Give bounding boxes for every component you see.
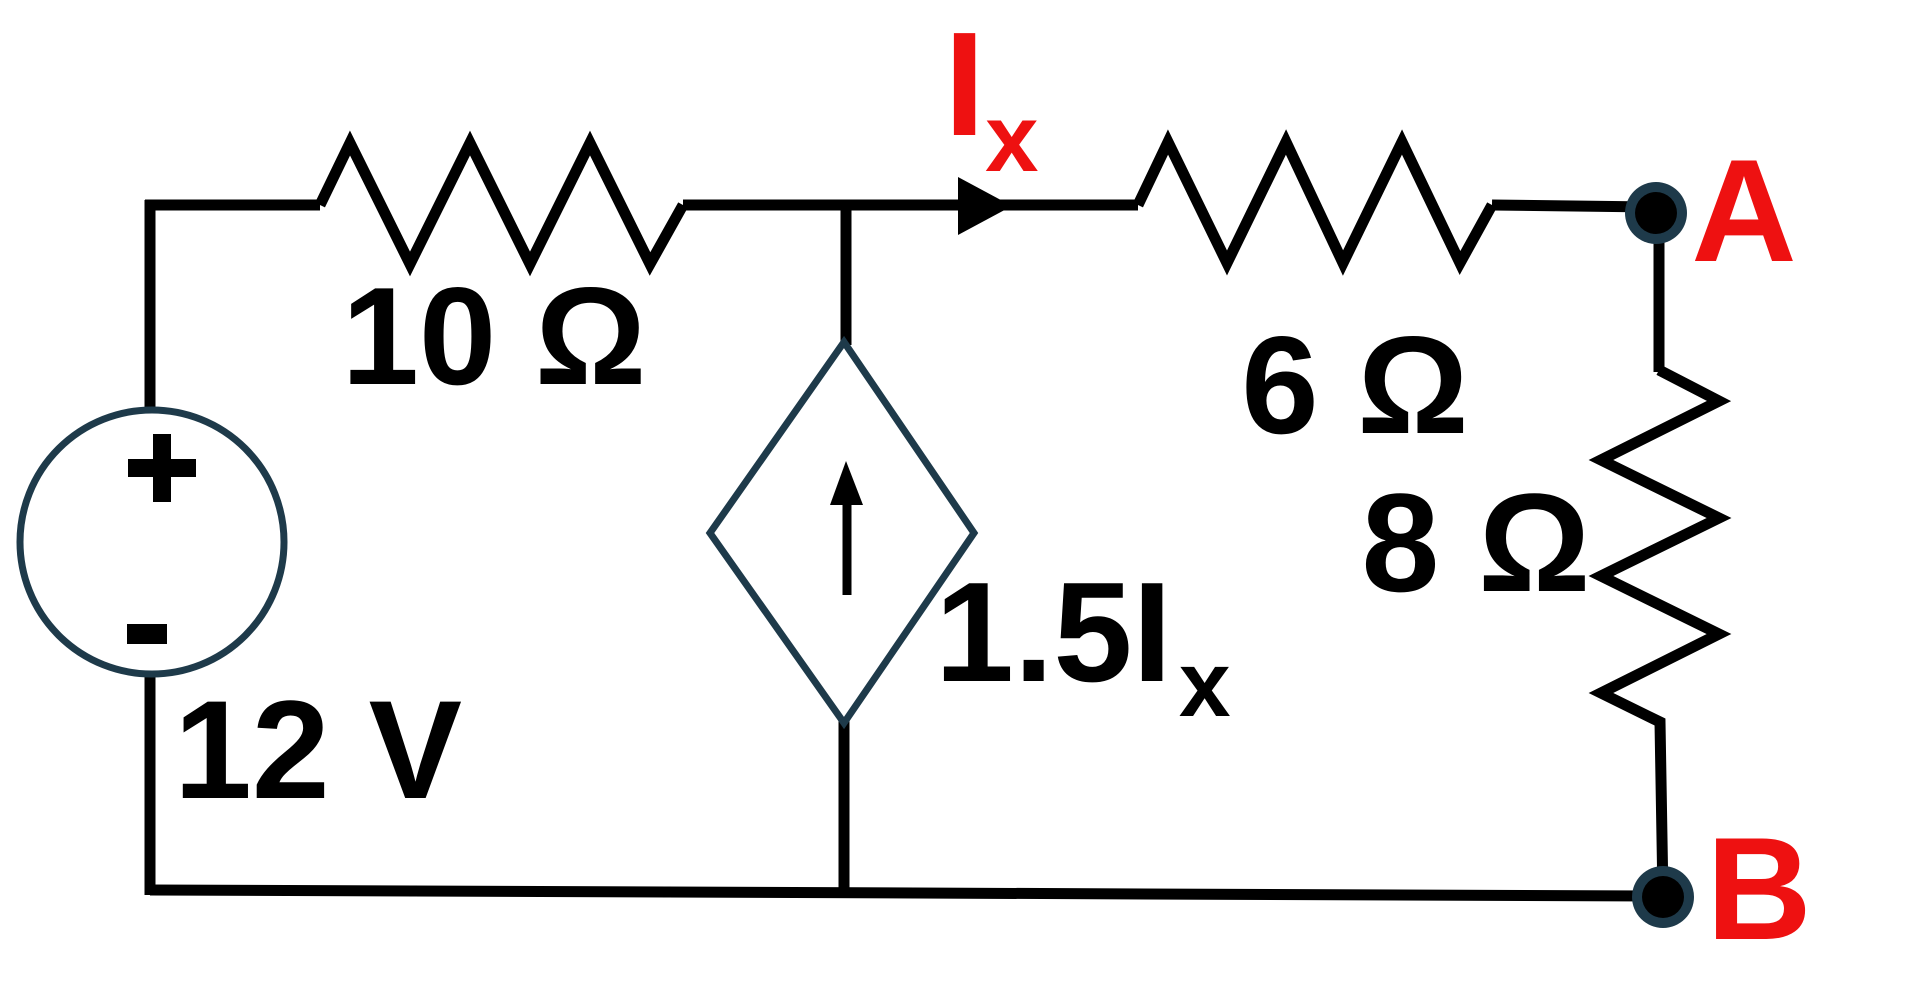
svg-text:12 V: 12 V: [174, 671, 462, 828]
svg-text:10 Ω: 10 Ω: [342, 259, 647, 414]
wire: top middle segment from R1 to arrow: [683, 200, 1138, 211]
resistor R1 10 ohm zigzag: [320, 143, 683, 264]
resistor R2 6 ohm zigzag: [1138, 142, 1492, 263]
svg-text:A: A: [1691, 129, 1796, 292]
V1 minus sign: [127, 624, 167, 644]
wire: middle vertical from dependent source to bottom wire: [839, 720, 850, 896]
wire: top-left horizontal segment: [145, 200, 320, 211]
wire: from R2 to node A: [1492, 205, 1656, 207]
resistor R3 8 ohm vertical zigzag: [1601, 370, 1719, 897]
svg-text:8 Ω: 8 Ω: [1361, 464, 1590, 621]
node A terminal dot: [1625, 182, 1687, 244]
svg-text:B: B: [1706, 807, 1811, 970]
current arrow Ix head: [958, 177, 1012, 235]
wire: bottom horizontal: [150, 890, 1663, 896]
wire: left vertical from source bottom to bottom-left corner: [145, 676, 156, 895]
wire: left vertical from top-left corner to source top: [145, 200, 156, 410]
svg-text:6 Ω: 6 Ω: [1241, 308, 1468, 463]
wire: middle vertical from top wire to dependent source: [841, 200, 852, 345]
V1 plus sign: [128, 434, 196, 502]
dependent current source D1 diamond: [710, 342, 974, 723]
voltage source V1 circle: [20, 410, 284, 674]
D1 arrow shaft: [843, 500, 852, 595]
node B terminal dot: [1632, 866, 1694, 928]
wire: node A down to R3: [1654, 210, 1665, 372]
D1 arrow head: [830, 461, 863, 505]
